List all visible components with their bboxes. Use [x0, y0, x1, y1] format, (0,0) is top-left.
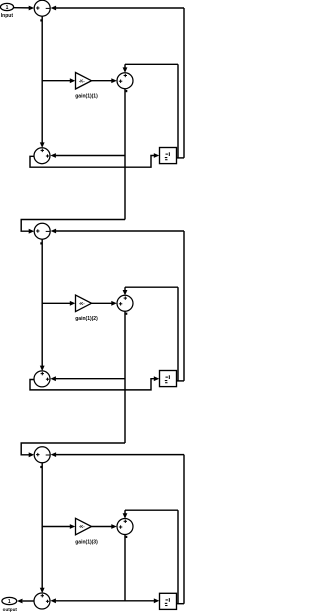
svg-text:output: output — [3, 607, 18, 612]
svg-text:Input: Input — [1, 13, 14, 19]
svg-text:gain(1)(3): gain(1)(3) — [75, 539, 98, 545]
svg-text:gain(1)(1): gain(1)(1) — [75, 94, 98, 100]
svg-text:gain(1)(2): gain(1)(2) — [75, 316, 98, 322]
svg-text:-K-: -K- — [79, 524, 85, 529]
svg-text:1: 1 — [8, 599, 11, 605]
svg-text:-K-: -K- — [79, 301, 85, 306]
svg-text:-K-: -K- — [79, 78, 85, 83]
svg-text:1: 1 — [6, 5, 9, 11]
